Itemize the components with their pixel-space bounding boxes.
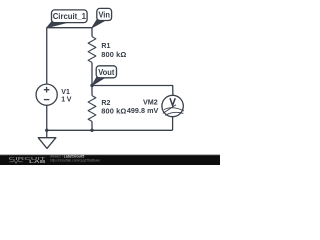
wire R1 to Vout node <box>91 62 93 95</box>
wire top horizontal Vin net <box>47 28 92 84</box>
label V1 value 1 V <box>61 89 71 104</box>
footer bar <box>0 155 220 165</box>
wire bottom horizontal ground net <box>47 129 173 131</box>
wire R2 to ground net <box>91 121 93 130</box>
svg-text:Vin: Vin <box>98 10 110 19</box>
node junction dot R2 bottom <box>90 129 93 132</box>
label R2 value 800 kΩ <box>101 100 126 116</box>
node junction dot ground <box>45 129 48 132</box>
svg-text:499.8 mV: 499.8 mV <box>127 106 159 115</box>
svg-text:R1: R1 <box>101 43 110 50</box>
svg-text:V1: V1 <box>61 89 70 96</box>
footer CircuitLab logo <box>9 156 46 164</box>
svg-text:800 kΩ: 800 kΩ <box>101 50 126 59</box>
svg-text:800 kΩ: 800 kΩ <box>101 107 126 116</box>
label VM2 value 499.8 mV <box>127 98 159 115</box>
svg-text:http://circuitlab.com/cpq27fe8: http://circuitlab.com/cpq27fe86uvn <box>50 159 100 163</box>
label R1 value 800 kΩ <box>101 43 126 59</box>
svg-text:LAB: LAB <box>29 159 46 164</box>
wire V1 bottom to ground node <box>46 105 48 130</box>
wire voltmeter bottom <box>172 117 174 131</box>
svg-text:Circuit_1: Circuit_1 <box>53 12 87 21</box>
node Vout junction dot <box>90 84 93 87</box>
ground <box>38 130 56 148</box>
footer credit text <box>50 155 100 163</box>
voltage source V1 <box>36 84 57 105</box>
wire Vout horizontal to voltmeter <box>92 86 173 96</box>
resistor R1 <box>88 37 96 63</box>
voltmeter VM2 <box>162 95 184 116</box>
resistor R2 <box>88 96 96 122</box>
net label Circuit_1 <box>47 10 87 28</box>
svg-text:1 V: 1 V <box>61 97 71 104</box>
net label Vout <box>92 66 116 86</box>
svg-text:Vout: Vout <box>98 68 115 77</box>
net label Vin <box>92 8 112 27</box>
